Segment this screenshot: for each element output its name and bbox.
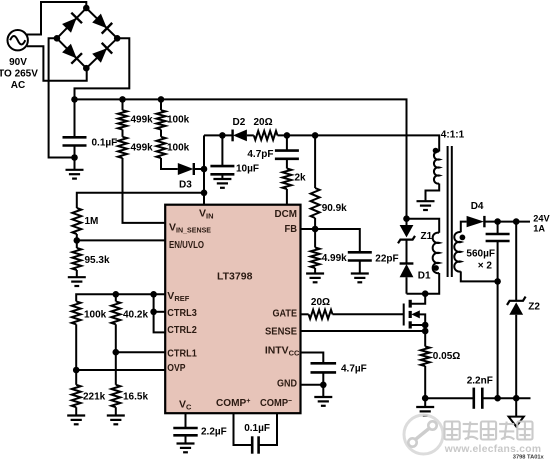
AC source V1 90V-265V xyxy=(8,30,28,50)
svg-text:16.5k: 16.5k xyxy=(123,392,148,403)
ground under 0.05ohm xyxy=(416,406,434,408)
node 560uF top junction xyxy=(494,218,501,225)
zener Z1 xyxy=(406,219,408,225)
node 1M-wire/VIN junction xyxy=(201,190,208,197)
bridge diode bottom-right xyxy=(92,48,107,63)
capacitor 4.7pF xyxy=(286,135,288,150)
node 1M/95.3k/EN junction xyxy=(74,237,81,244)
svg-text:1A: 1A xyxy=(533,224,545,234)
wire bridge left node to ground/cap-bottom xyxy=(49,38,75,157)
svg-text:10µF: 10µF xyxy=(236,164,259,175)
node drain junction xyxy=(422,290,429,297)
svg-text:90V: 90V xyxy=(9,57,27,68)
resistor 2k xyxy=(286,159,288,169)
diode D1 xyxy=(400,262,414,264)
ground at GND pin xyxy=(314,396,332,398)
diode D4 xyxy=(467,216,484,227)
wire bridge right node to DC rail xyxy=(75,38,130,99)
bridge diode top-right xyxy=(92,14,107,29)
resistor 90.9k xyxy=(314,135,316,188)
wire CTRL1 xyxy=(116,351,166,353)
capacitor 4.7uF xyxy=(300,353,323,364)
wire VIN vertical xyxy=(203,135,205,204)
svg-text:× 2: × 2 xyxy=(478,261,493,272)
svg-text:Z1: Z1 xyxy=(421,231,433,242)
svg-text:SENSE: SENSE xyxy=(265,325,297,337)
capacitor 0.1uF input xyxy=(74,99,76,137)
ground under 0.1uF xyxy=(66,169,84,171)
diode D2 xyxy=(231,130,233,142)
svg-text:GND: GND xyxy=(277,378,297,390)
watermark chinese text xyxy=(445,422,533,440)
capacitor 2.2uF xyxy=(185,414,187,429)
node Z2 top junction xyxy=(513,218,520,225)
wire 40.2k to CTRL1 xyxy=(115,324,117,385)
wire primary top xyxy=(407,219,440,233)
bridge rectifier BR1 outline xyxy=(57,8,117,68)
svg-text:24V: 24V xyxy=(533,214,550,224)
svg-text:0.05Ω: 0.05Ω xyxy=(433,351,460,362)
svg-text:TO 265V: TO 265V xyxy=(0,69,38,80)
resistor 0.05ohm xyxy=(421,347,430,367)
bridge diode top-left xyxy=(62,18,77,33)
resistor 20ohm (D2) xyxy=(247,134,254,136)
wire AC top terminal to bridge top xyxy=(27,2,86,35)
svg-text:AC: AC xyxy=(11,80,25,91)
svg-text:CTRL2: CTRL2 xyxy=(167,324,197,336)
node rail/100k junction xyxy=(158,96,165,103)
svg-text:221k: 221k xyxy=(83,392,106,403)
node 0.1uF bottom junction xyxy=(71,154,78,161)
wire SENSE xyxy=(300,330,425,332)
svg-text:499k: 499k xyxy=(131,143,154,154)
node 90.9k branch junction xyxy=(312,132,319,139)
svg-text:560µF: 560µF xyxy=(466,249,495,260)
resistor 95.3k xyxy=(76,240,78,248)
transistor Q1 MOSFET xyxy=(404,294,426,329)
node bridge bottom xyxy=(83,65,90,72)
node output common 560uF xyxy=(494,395,501,402)
svg-text:4.7µF: 4.7µF xyxy=(341,364,367,375)
svg-text:0.1µF: 0.1µF xyxy=(92,138,118,149)
svg-text:CTRL1: CTRL1 xyxy=(167,348,197,360)
node primary phase dot xyxy=(433,265,439,271)
resistor 100k upper xyxy=(160,99,162,110)
wire CTRL3 stub xyxy=(154,311,166,313)
node rail/cap junction xyxy=(71,96,78,103)
wire AC bottom terminal to bridge bottom xyxy=(27,46,87,80)
resistor 499k upper xyxy=(122,99,124,110)
zener Z2 xyxy=(515,222,517,301)
transformer secondary winding xyxy=(454,232,461,272)
node sense junction xyxy=(422,328,429,335)
wire output 24V xyxy=(484,221,530,223)
svg-text:90.9k: 90.9k xyxy=(322,203,347,214)
resistor 4.99k xyxy=(314,229,316,248)
node sense-bottom junction xyxy=(422,395,429,402)
wire EN/UVLO xyxy=(77,239,166,241)
svg-text:DCM: DCM xyxy=(275,208,298,220)
transformer bias winding xyxy=(434,151,439,183)
ground bias winding xyxy=(417,200,435,202)
svg-text:4.99k: 4.99k xyxy=(322,253,347,264)
resistor 100k lower xyxy=(160,130,162,137)
wire gate xyxy=(333,313,404,315)
svg-text:1M: 1M xyxy=(85,216,99,227)
resistor 499k lower xyxy=(122,130,124,137)
svg-text:2.2nF: 2.2nF xyxy=(467,376,493,387)
wire DC+ rail xyxy=(75,99,407,218)
wire OVP xyxy=(76,369,165,371)
svg-text:22pF: 22pF xyxy=(375,254,398,265)
svg-text:499k: 499k xyxy=(131,115,154,126)
resistor 40.2k xyxy=(115,294,117,301)
node output common Z2 xyxy=(513,395,520,402)
resistor 1M xyxy=(72,208,81,234)
node bias phase dot xyxy=(433,148,439,154)
svg-text:40.2k: 40.2k xyxy=(123,310,148,321)
wire 100k to OVP xyxy=(75,324,77,370)
svg-text:D4: D4 xyxy=(471,201,484,212)
node bridge top xyxy=(83,5,90,12)
ground under 2.2uF xyxy=(177,442,195,444)
transformer core xyxy=(447,146,449,277)
wire FB net xyxy=(300,229,360,252)
ground under 10uF xyxy=(213,178,231,180)
wire bias winding to ground xyxy=(426,184,440,201)
watermark logo circle xyxy=(404,415,443,454)
node CTRL3 junction xyxy=(150,309,157,316)
capacitor 2.2nF xyxy=(425,397,474,399)
svg-text:20Ω: 20Ω xyxy=(311,297,330,308)
svg-text:LT3798: LT3798 xyxy=(217,271,253,283)
node 10uF top junction xyxy=(219,132,226,139)
svg-text:FB: FB xyxy=(285,223,298,235)
svg-text:D3: D3 xyxy=(179,180,192,191)
node secondary bottom junction xyxy=(494,278,501,285)
wire D2 net horizontal xyxy=(204,134,233,136)
wire VREF to CTRL3/CTRL2 xyxy=(154,294,166,332)
node 4.7pF branch junction xyxy=(284,132,291,139)
capacitor 560uF x2 xyxy=(497,222,499,234)
wire GND pin xyxy=(300,384,323,386)
svg-text:4.7pF: 4.7pF xyxy=(247,149,273,160)
svg-text:3798 TA01x: 3798 TA01x xyxy=(513,454,545,460)
resistor 100k (VREF) xyxy=(72,301,81,324)
ground under 16.5k xyxy=(107,414,125,416)
svg-text:D1: D1 xyxy=(418,271,431,282)
node source junction xyxy=(422,322,429,329)
resistor 16.5k xyxy=(111,385,120,407)
svg-text:100k: 100k xyxy=(167,143,190,154)
node OVP junction xyxy=(73,367,80,374)
svg-text:100k: 100k xyxy=(84,310,107,321)
wire source down xyxy=(424,325,426,347)
wire to output ground xyxy=(515,398,517,416)
diode D3 xyxy=(178,163,194,175)
ground under 22pF xyxy=(351,272,369,274)
node VREF/40.2k junction xyxy=(113,291,120,298)
node CTRL1 junction xyxy=(113,349,120,356)
node secondary phase dot xyxy=(460,235,466,241)
wire primary bottom to drain node xyxy=(407,273,440,294)
wire 1M top to VIN net xyxy=(77,193,204,208)
svg-text:OVP: OVP xyxy=(167,362,185,374)
op-amp U1 LT3798 body xyxy=(165,205,300,414)
label 90V TO 265V AC xyxy=(0,57,38,91)
node rail/499k junction xyxy=(119,96,126,103)
resistor 20ohm (gate) xyxy=(300,313,309,315)
node bridge right xyxy=(114,35,121,42)
svg-text:20Ω: 20Ω xyxy=(254,117,273,128)
svg-text:0.1µF: 0.1µF xyxy=(244,423,270,434)
transformer primary winding xyxy=(433,233,440,274)
svg-text:COMP−: COMP− xyxy=(260,396,293,409)
node D3/VIN junction xyxy=(201,166,208,173)
wire 499k bottom to VIN_SENSE xyxy=(123,158,166,223)
ground under 4.99k xyxy=(306,272,324,274)
svg-text:GATE: GATE xyxy=(273,307,298,319)
wire secondary top to D4 xyxy=(461,222,467,233)
svg-text:EN/UVLO: EN/UVLO xyxy=(169,239,204,251)
capacitor 22pF xyxy=(348,251,372,254)
node GND junction xyxy=(320,382,327,389)
svg-text:Z2: Z2 xyxy=(528,302,540,313)
node snubber/primary junction xyxy=(403,215,410,222)
capacitor 0.1uF (COMP) xyxy=(234,414,253,446)
svg-text:2k: 2k xyxy=(295,173,307,184)
svg-text:100k: 100k xyxy=(167,115,190,126)
node VREF/CTRL link junction xyxy=(150,291,157,298)
wire secondary bottom xyxy=(461,271,498,281)
resistor 221k xyxy=(75,370,77,385)
wire 100k bottom to D3 xyxy=(161,158,178,169)
svg-text:CTRL3: CTRL3 xyxy=(167,307,197,319)
ground output (triangle) xyxy=(509,417,524,427)
bridge diode bottom-left xyxy=(62,44,77,59)
svg-text:D2: D2 xyxy=(233,117,246,128)
ground under 221k xyxy=(67,414,85,416)
wire VREF net xyxy=(76,294,165,301)
svg-text:95.3k: 95.3k xyxy=(85,255,110,266)
node bridge left xyxy=(54,35,61,42)
node FB/90.9k junction xyxy=(312,226,319,233)
ground under 95.3k xyxy=(68,276,86,278)
svg-text:2.2µF: 2.2µF xyxy=(201,427,227,438)
svg-text:COMP+: COMP+ xyxy=(216,396,251,409)
svg-text:4:1:1: 4:1:1 xyxy=(441,129,465,140)
